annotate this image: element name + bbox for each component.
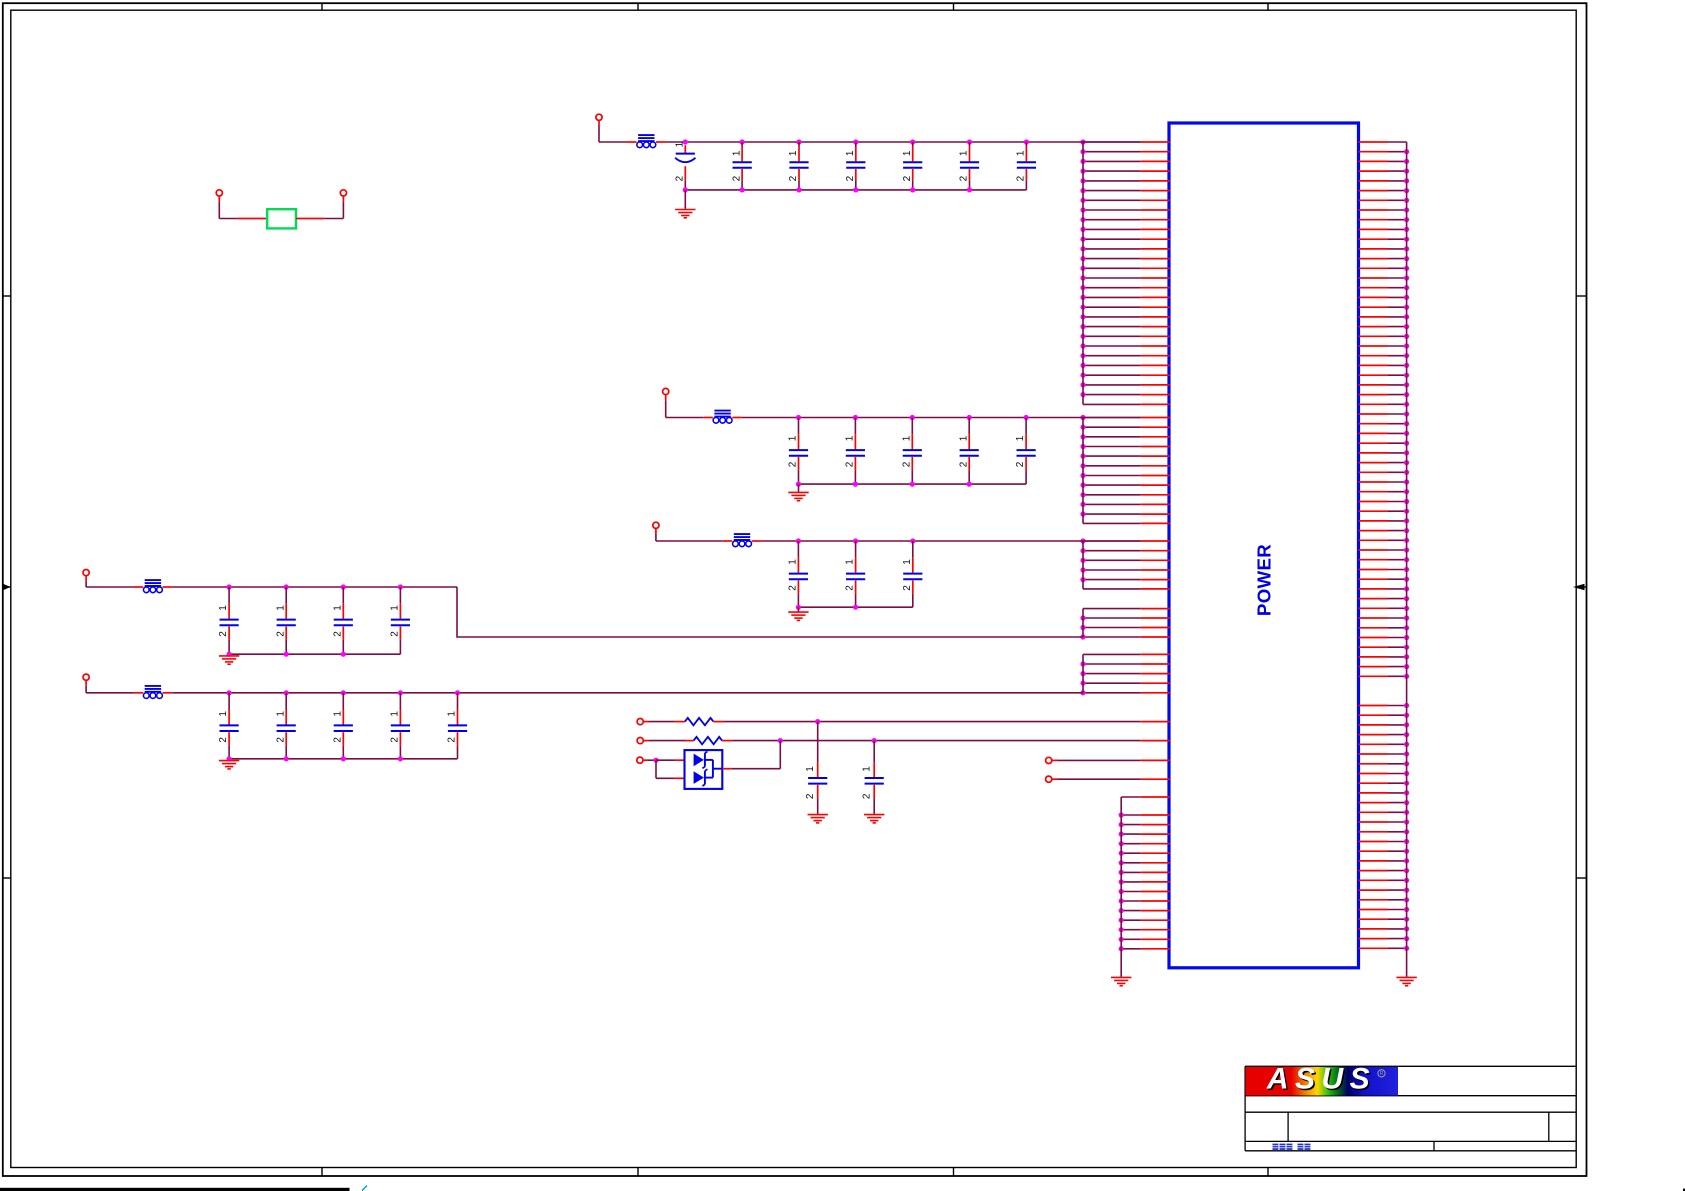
svg-text:1: 1 (332, 711, 343, 717)
svg-text:2: 2 (332, 737, 343, 743)
svg-text:2: 2 (788, 585, 799, 591)
svg-text:1: 1 (390, 711, 401, 717)
svg-text:2: 2 (845, 585, 856, 591)
svg-text:1: 1 (862, 766, 873, 772)
svg-text:2: 2 (675, 175, 686, 181)
svg-text:1: 1 (959, 150, 970, 156)
svg-text:1: 1 (731, 150, 742, 156)
svg-text:2: 2 (390, 631, 401, 637)
svg-text:2: 2 (805, 793, 816, 799)
svg-text:2: 2 (901, 461, 912, 467)
svg-text:1: 1 (332, 605, 343, 611)
svg-text:1: 1 (805, 766, 816, 772)
svg-text:2: 2 (902, 175, 913, 181)
svg-text:1: 1 (218, 711, 229, 717)
svg-text:1: 1 (788, 435, 799, 441)
svg-text:1: 1 (845, 150, 856, 156)
svg-text:2: 2 (731, 175, 742, 181)
svg-text:1: 1 (447, 711, 458, 717)
svg-text:1: 1 (218, 605, 229, 611)
svg-text:2: 2 (902, 585, 913, 591)
svg-text:1: 1 (275, 711, 286, 717)
svg-text:2: 2 (958, 461, 969, 467)
svg-text:R: R (1380, 1071, 1384, 1077)
svg-text:2: 2 (447, 737, 458, 743)
svg-text:POWER: POWER (1254, 544, 1275, 616)
svg-text:2: 2 (1015, 461, 1026, 467)
svg-text:2: 2 (275, 631, 286, 637)
svg-text:2: 2 (845, 175, 856, 181)
svg-text:1: 1 (390, 605, 401, 611)
svg-text:2: 2 (275, 737, 286, 743)
svg-text:2: 2 (1016, 175, 1027, 181)
svg-text:1: 1 (958, 435, 969, 441)
svg-text:1: 1 (901, 435, 912, 441)
svg-text:1: 1 (845, 435, 856, 441)
svg-text:1: 1 (902, 150, 913, 156)
svg-text:2: 2 (218, 631, 229, 637)
svg-text:1: 1 (275, 605, 286, 611)
svg-text:2: 2 (390, 737, 401, 743)
svg-text:1: 1 (675, 141, 686, 147)
svg-text:1: 1 (845, 559, 856, 565)
svg-text:2: 2 (788, 461, 799, 467)
svg-text:1: 1 (788, 559, 799, 565)
svg-text:2: 2 (959, 175, 970, 181)
svg-text:ASUS: ASUS (1266, 1062, 1376, 1095)
svg-text:2: 2 (862, 793, 873, 799)
svg-text:1: 1 (788, 150, 799, 156)
svg-text:2: 2 (788, 175, 799, 181)
svg-text:1: 1 (1015, 435, 1026, 441)
svg-text:1: 1 (1016, 150, 1027, 156)
svg-text:2: 2 (332, 631, 343, 637)
svg-text:2: 2 (218, 737, 229, 743)
svg-text:2: 2 (845, 461, 856, 467)
svg-text:1: 1 (902, 559, 913, 565)
